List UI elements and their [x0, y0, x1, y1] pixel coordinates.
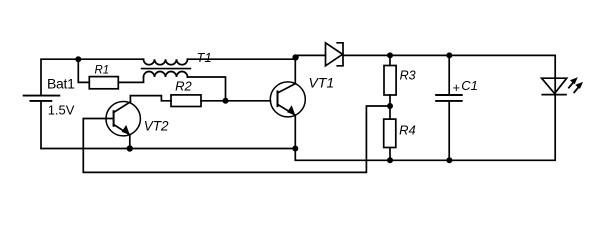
svg-text:VT2: VT2 [144, 118, 169, 133]
svg-text:R4: R4 [399, 123, 416, 138]
svg-text:R1: R1 [95, 65, 110, 77]
svg-text:VT1: VT1 [309, 75, 335, 91]
svg-text:Bat1: Bat1 [47, 75, 75, 91]
svg-text:1.5V: 1.5V [48, 103, 75, 118]
svg-text:T1: T1 [197, 50, 212, 65]
svg-text:R3: R3 [400, 69, 416, 83]
svg-text:+: + [453, 80, 461, 95]
svg-text:C1: C1 [461, 78, 478, 93]
svg-text:R2: R2 [175, 78, 192, 93]
